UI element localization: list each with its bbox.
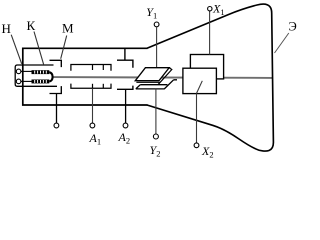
leader K bbox=[34, 32, 44, 65]
X2 terminal bbox=[194, 143, 199, 148]
svg-text:К: К bbox=[27, 18, 36, 33]
tube flare and screen bbox=[147, 4, 273, 151]
modulator bottom bracket bbox=[50, 86, 62, 93]
A2 top crossbar bbox=[117, 60, 133, 67]
A1 bottom ticks bbox=[92, 84, 94, 89]
modulator stem bbox=[56, 94, 58, 124]
Y plate top thickness bbox=[136, 68, 171, 85]
anode A1 top bbox=[71, 65, 111, 71]
heater terminal circle 1 bbox=[16, 69, 21, 74]
Y2 terminal bbox=[153, 134, 158, 139]
A2 bottom stem bbox=[125, 89, 127, 123]
A1 stem bbox=[92, 88, 94, 123]
svg-text:Э: Э bbox=[289, 19, 297, 33]
leader Э bbox=[275, 33, 289, 53]
cathode K body bbox=[15, 65, 57, 86]
X2 lead bbox=[196, 94, 198, 143]
heater hairpin bend bbox=[49, 72, 52, 81]
Y1 terminal bbox=[154, 22, 159, 27]
heater terminal circle 2 bbox=[16, 79, 21, 84]
A2 terminal bbox=[123, 123, 128, 128]
X2 inner lead diagonal bbox=[197, 81, 203, 94]
heater coil top bbox=[32, 70, 50, 74]
CRT envelope bbox=[23, 48, 148, 105]
X1 terminal bbox=[208, 7, 212, 11]
X1 lead bbox=[209, 11, 211, 55]
svg-text:Н: Н bbox=[2, 21, 11, 36]
modulator top bracket bbox=[50, 60, 62, 67]
leader M bbox=[61, 36, 67, 59]
Y2 lead bbox=[155, 89, 157, 134]
heater lead bottom bbox=[21, 80, 32, 82]
heater coil bottom bbox=[32, 80, 50, 84]
anode A1 bottom bbox=[71, 84, 111, 89]
anode A2 top stem bbox=[124, 48, 126, 60]
heater lead top bbox=[21, 70, 32, 72]
A1 terminal bbox=[90, 123, 95, 128]
Y plate top bbox=[135, 68, 169, 81]
X plate front X2 bbox=[183, 68, 217, 93]
Y plate bottom bbox=[136, 80, 177, 89]
beam axis bbox=[52, 76, 272, 79]
A1 top ticks bbox=[92, 65, 94, 71]
svg-text:М: М bbox=[62, 21, 74, 36]
leader H bbox=[11, 35, 22, 64]
X plate back X1 bbox=[190, 55, 223, 79]
A2 bottom crossbar bbox=[117, 86, 133, 90]
modulator terminal bbox=[54, 123, 59, 128]
Y1 lead bbox=[156, 27, 158, 68]
